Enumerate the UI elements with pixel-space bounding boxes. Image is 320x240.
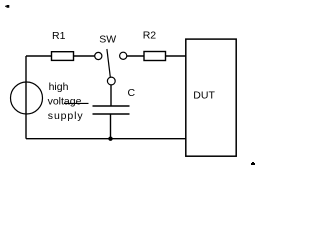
switch SW right contact [120,52,127,59]
wire bottom from source to DUT [26,138,186,140]
strikethrough artifact over voltage [64,102,89,104]
voltage source V1 (high voltage supply) [11,82,43,114]
DUT box [186,39,236,156]
switch SW left contact [95,52,102,59]
junction dot capacitor to bottom wire [108,137,112,141]
wire capacitor top lead [110,85,112,106]
artifact mark bottom-right [251,162,255,165]
switch SW bottom contact [107,77,115,85]
svg-text:DUT: DUT [193,90,215,102]
switch SW blade [107,49,110,77]
resistor R1 [52,52,74,61]
wire R1 to switch [74,55,95,57]
svg-text:voltage: voltage [48,95,82,107]
svg-text:C: C [128,87,136,99]
svg-text:supply: supply [48,110,84,122]
svg-text:R2: R2 [143,30,157,42]
wire R2 to DUT [166,55,186,57]
artifact mark top-left [5,5,9,8]
resistor R2 [144,52,166,61]
wire switch to R2 [127,55,144,57]
svg-text:R1: R1 [52,30,66,42]
svg-text:high: high [49,81,69,93]
svg-text:SW: SW [99,34,116,46]
capacitor C plates [93,106,130,114]
wire left vertical from top wire through source to bottom wire [25,56,27,139]
wire capacitor bottom lead [110,114,112,139]
wire top segment from source to R1 [26,55,52,57]
